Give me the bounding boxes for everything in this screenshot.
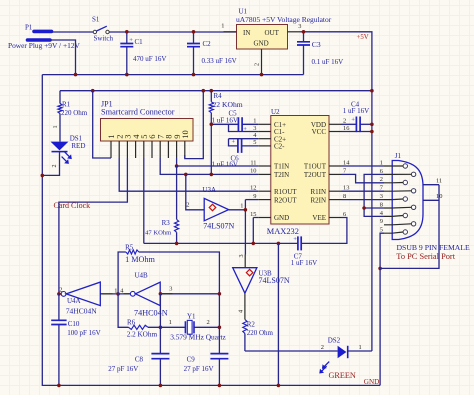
wire JP1 pin 10 to +5V xyxy=(185,91,204,159)
svg-text:U4A: U4A xyxy=(67,297,81,305)
wire DS2 to +5V xyxy=(348,350,372,352)
svg-text:R3: R3 xyxy=(162,219,171,227)
capacitor C6 xyxy=(212,138,259,168)
svg-text:U3A: U3A xyxy=(202,186,216,194)
wire R2OUT node to U3B input xyxy=(244,200,246,255)
capacitor C7 xyxy=(291,236,317,267)
svg-text:Card Clock: Card Clock xyxy=(54,201,91,210)
J1 pin stubs xyxy=(384,166,411,233)
svg-text:2: 2 xyxy=(321,344,324,351)
svg-text:9: 9 xyxy=(253,193,256,200)
svg-text:Y1: Y1 xyxy=(187,313,196,321)
IC U2 MAX232 xyxy=(267,108,329,236)
junction top rail xyxy=(74,73,78,77)
svg-text:14: 14 xyxy=(343,159,350,166)
svg-text:C10: C10 xyxy=(68,320,80,328)
svg-text:15: 15 xyxy=(250,211,256,218)
wire J1 shield pins 11 10 xyxy=(380,185,439,269)
resistor R3 xyxy=(145,166,179,243)
svg-text:J1: J1 xyxy=(395,152,402,160)
svg-text:S1: S1 xyxy=(92,16,100,24)
svg-text:U4B: U4B xyxy=(135,272,149,280)
svg-text:2: 2 xyxy=(51,164,58,167)
JP1 pin numbers 1-10 xyxy=(106,130,190,139)
capacitor C8 xyxy=(108,327,169,385)
svg-text:3: 3 xyxy=(298,23,301,30)
svg-text:IN: IN xyxy=(243,29,250,37)
wire U4B input riser xyxy=(159,294,161,328)
wire U4A output junction xyxy=(59,293,61,295)
wire U2 VCC to +5V xyxy=(342,131,372,133)
svg-text:74HC04N: 74HC04N xyxy=(66,306,97,315)
svg-text:VEE: VEE xyxy=(312,214,326,222)
svg-text:1 MOhm: 1 MOhm xyxy=(125,255,155,264)
connector JP1 smartcard xyxy=(101,100,194,142)
svg-text:3: 3 xyxy=(169,285,172,292)
svg-text:GREEN: GREEN xyxy=(329,371,356,380)
resistor R1 xyxy=(52,91,88,142)
U2 pin numbers xyxy=(250,118,350,218)
svg-text:C8: C8 xyxy=(135,356,144,364)
svg-text:4: 4 xyxy=(238,310,245,313)
wire P1 to S1 xyxy=(52,31,94,33)
svg-text:R5: R5 xyxy=(125,244,134,252)
svg-text:DSUB 9 PIN FEMALE: DSUB 9 PIN FEMALE xyxy=(397,243,471,252)
svg-text:C3: C3 xyxy=(312,40,321,49)
wire JP1 pin 3 card clock net xyxy=(59,158,128,294)
junction input rail xyxy=(125,30,129,34)
capacitor C10 xyxy=(51,294,100,386)
capacitor C3 xyxy=(297,32,343,75)
svg-text:1: 1 xyxy=(359,344,362,351)
svg-text:GND: GND xyxy=(254,40,269,48)
wire J1 pins 6 8 4 tie xyxy=(364,174,384,216)
svg-text:Smartcarrd Connector: Smartcarrd Connector xyxy=(101,107,175,116)
svg-text:11: 11 xyxy=(436,178,442,185)
svg-text:1 uF 16V: 1 uF 16V xyxy=(212,117,238,125)
svg-text:74LS07N: 74LS07N xyxy=(203,222,234,231)
svg-text:R2: R2 xyxy=(247,320,256,328)
svg-text:C2-: C2- xyxy=(274,143,285,151)
svg-text:DS2: DS2 xyxy=(328,337,341,345)
svg-text:2: 2 xyxy=(343,118,346,125)
svg-text:1 uF 16V: 1 uF 16V xyxy=(212,161,238,169)
svg-text:+: + xyxy=(243,126,247,133)
svg-text:47 KOhm: 47 KOhm xyxy=(145,230,172,237)
svg-text:T2OUT: T2OUT xyxy=(304,171,327,179)
svg-text:MAX232: MAX232 xyxy=(267,227,299,236)
J1 pin holes xyxy=(403,164,416,234)
U2 right pin stubs xyxy=(329,124,342,217)
svg-text:1: 1 xyxy=(240,203,243,210)
svg-text:8: 8 xyxy=(380,201,383,208)
svg-text:3: 3 xyxy=(253,125,256,132)
U2 left pin stubs xyxy=(258,124,271,217)
svg-text:1 uF 16V: 1 uF 16V xyxy=(343,107,369,115)
svg-text:+: + xyxy=(129,37,133,44)
wire R5 node riser xyxy=(218,294,220,328)
buffer U3A 74LS07 xyxy=(186,186,243,230)
wire U4B input net xyxy=(160,293,219,295)
svg-text:Switch: Switch xyxy=(94,35,114,43)
U1 pin 3 xyxy=(288,31,301,33)
svg-text:10: 10 xyxy=(250,168,256,175)
svg-text:5: 5 xyxy=(253,139,256,146)
svg-text:220 Ohm: 220 Ohm xyxy=(247,329,274,337)
wire T2IN net to U3A input xyxy=(186,174,204,209)
svg-text:8: 8 xyxy=(343,193,346,200)
bottom rail junctions xyxy=(57,384,61,388)
svg-text:22 KOhm: 22 KOhm xyxy=(213,100,243,109)
wire R1IN to J1 pin 7 xyxy=(342,190,385,192)
svg-text:C2: C2 xyxy=(203,40,212,48)
svg-text:10: 10 xyxy=(180,130,190,139)
svg-text:1: 1 xyxy=(253,118,256,125)
U1 pin 1 xyxy=(224,31,237,33)
resistor R2 xyxy=(243,319,274,351)
svg-text:+5V: +5V xyxy=(357,34,369,41)
wire P1 return to ground rail xyxy=(50,40,76,75)
svg-text:R1: R1 xyxy=(62,101,71,109)
wire Y1 to C9 node xyxy=(194,326,219,328)
buffer U3B 74LS07 xyxy=(233,254,290,313)
svg-text:2.2 KOhm: 2.2 KOhm xyxy=(127,331,158,339)
svg-text:1: 1 xyxy=(169,319,172,326)
LED DS1 red xyxy=(51,135,86,168)
ground rail top xyxy=(42,74,303,76)
voltage regulator U1 uA7805 xyxy=(236,8,332,50)
svg-text:GND: GND xyxy=(364,378,380,386)
svg-text:T1OUT: T1OUT xyxy=(304,163,327,171)
inverter U4B 74HC04 xyxy=(120,272,172,318)
svg-text:2: 2 xyxy=(186,202,189,209)
svg-text:11: 11 xyxy=(250,159,256,166)
svg-text:U2: U2 xyxy=(271,108,280,116)
+5V distribution rail xyxy=(60,90,372,92)
LED DS2 green xyxy=(245,337,362,381)
svg-text:T1IN: T1IN xyxy=(274,163,289,171)
svg-text:13: 13 xyxy=(343,185,349,192)
svg-text:0.33 uF 16V: 0.33 uF 16V xyxy=(202,57,237,65)
svg-text:100 pF 16V: 100 pF 16V xyxy=(67,329,100,337)
wire JP1 pin 2 to R1OUT net xyxy=(119,158,258,191)
wire R2IN to J1 pin 3 xyxy=(342,199,385,201)
svg-text:GND: GND xyxy=(274,214,289,222)
svg-text:12: 12 xyxy=(250,185,256,192)
svg-text:3: 3 xyxy=(238,254,245,257)
svg-text:1 uF 16V: 1 uF 16V xyxy=(291,259,317,267)
wire JP1 pin 5 to ground xyxy=(143,158,145,243)
U3B output stub xyxy=(244,293,246,319)
wire T2OUT to J1 pin 2 xyxy=(342,174,385,182)
ground mid rail xyxy=(144,242,298,244)
connector J1 DSUB9 xyxy=(392,152,470,261)
svg-text:R1OUT: R1OUT xyxy=(274,188,297,196)
svg-text:T2IN: T2IN xyxy=(274,171,289,179)
capacitor C2 xyxy=(187,32,237,75)
svg-text:27 pF 16V: 27 pF 16V xyxy=(108,365,138,373)
svg-text:27 pF 16V: 27 pF 16V xyxy=(184,365,214,373)
wire JP1 pin 9 to T1IN net xyxy=(177,158,259,166)
svg-text:1: 1 xyxy=(380,159,383,166)
wire T1OUT to J1 pin 1 xyxy=(342,165,385,167)
svg-text:+: + xyxy=(293,236,297,243)
resistor R4 pull-up xyxy=(209,91,243,175)
svg-text:2: 2 xyxy=(254,63,261,66)
svg-text:1: 1 xyxy=(221,23,224,30)
svg-text:3.579 MHz Quartz: 3.579 MHz Quartz xyxy=(170,333,226,342)
wire JP1 pin 7 to T2IN net xyxy=(160,158,258,174)
svg-text:RED: RED xyxy=(71,142,85,150)
svg-text:74HC04N: 74HC04N xyxy=(134,308,168,317)
svg-text:uA7805 +5V Voltage Regulator: uA7805 +5V Voltage Regulator xyxy=(236,15,332,24)
JP1 pin stubs xyxy=(111,141,185,158)
wire U1 output to +5V net xyxy=(301,32,372,351)
wire U2 VEE to C7 xyxy=(301,218,347,244)
svg-text:VCC: VCC xyxy=(312,128,327,136)
svg-text:9: 9 xyxy=(380,218,383,225)
svg-text:16: 16 xyxy=(343,125,349,132)
svg-text:1: 1 xyxy=(52,125,59,128)
inverter U4A 74HC04 xyxy=(59,282,117,315)
capacitor C4 xyxy=(342,101,372,133)
svg-text:+: + xyxy=(351,117,355,124)
wire DS1 cathode to ground rail xyxy=(42,152,59,176)
svg-text:R2OUT: R2OUT xyxy=(274,196,297,204)
svg-text:R1IN: R1IN xyxy=(310,188,326,196)
J1 pin numbers xyxy=(380,159,443,233)
capacitor C9 xyxy=(184,327,229,385)
svg-text:220 Ohm: 220 Ohm xyxy=(61,109,88,117)
crystal Y1 xyxy=(169,313,227,342)
ground left rail and bottom rail xyxy=(42,75,380,386)
svg-text:74LS07N: 74LS07N xyxy=(259,276,290,285)
wire U3A output to R2OUT net xyxy=(229,209,246,211)
svg-text:P1: P1 xyxy=(25,24,33,32)
svg-text:2: 2 xyxy=(380,176,383,183)
svg-text:To PC Serial Port: To PC Serial Port xyxy=(396,252,455,261)
svg-text:C1: C1 xyxy=(135,38,144,46)
svg-text:C9: C9 xyxy=(187,356,196,364)
svg-text:+: + xyxy=(232,138,236,145)
svg-text:OUT: OUT xyxy=(265,29,280,37)
capacitor C1 xyxy=(120,32,166,75)
svg-text:0.1 uF 16V: 0.1 uF 16V xyxy=(312,58,344,66)
resistor R6 xyxy=(118,294,185,339)
connector P1 power plug xyxy=(8,24,81,51)
wire +5V to JP1 pin 1 xyxy=(93,91,111,158)
switch S1 xyxy=(92,16,113,43)
svg-text:6: 6 xyxy=(343,211,346,218)
wire J1 pin 5 to ground xyxy=(380,233,384,385)
ground tie wire xyxy=(277,243,279,385)
svg-text:3: 3 xyxy=(380,193,383,200)
U1 pin 2 ground pin xyxy=(261,49,263,75)
capacitor C5 xyxy=(211,109,258,132)
svg-text:470 uF 16V: 470 uF 16V xyxy=(133,55,166,63)
svg-text:Power Plug +9V / +12V: Power Plug +9V / +12V xyxy=(8,41,81,50)
svg-text:R4: R4 xyxy=(214,92,223,100)
svg-text:2: 2 xyxy=(207,319,210,326)
wire S1 to U1 input rail xyxy=(109,31,236,33)
U2 pin 15 ground wire xyxy=(253,218,258,244)
svg-text:R2IN: R2IN xyxy=(310,196,326,204)
wire U4A input to U4B output xyxy=(100,293,130,295)
svg-text:R6: R6 xyxy=(127,319,136,327)
resistor R5 feedback xyxy=(118,244,219,294)
